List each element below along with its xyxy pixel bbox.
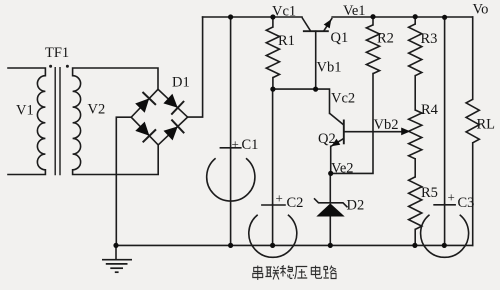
wire R1 top lead: [272, 17, 274, 27]
wire C3 lower lead: [444, 204, 446, 245]
ground bar 1: [102, 259, 132, 261]
transistor Q2 base bar: [343, 120, 345, 145]
svg-text:Vc2: Vc2: [331, 91, 355, 107]
bridge diode bottom-right bar: [171, 120, 184, 134]
junction dot Ve2: [328, 171, 333, 176]
svg-text:C2: C2: [287, 195, 304, 211]
svg-text:Vo: Vo: [473, 2, 489, 18]
capacitor C2 circle: [249, 215, 297, 258]
transformer TF1 primary winding: [37, 76, 45, 170]
junction dot D2 bottom: [328, 243, 333, 248]
svg-text:Ve1: Ve1: [343, 3, 366, 19]
transformer TF1 secondary winding: [73, 76, 81, 170]
wire top rail right segment: [332, 16, 473, 18]
svg-text:R3: R3: [421, 31, 438, 47]
wire Q2 emitter to Ve2: [330, 146, 332, 173]
transistor Q1 emitter diagonal: [324, 18, 333, 31]
wire bottom rail: [116, 244, 473, 246]
wire secondary bottom lead to bridge: [73, 145, 159, 175]
transformer TF1 core lines: [55, 67, 60, 175]
wire top rail left segment: [203, 16, 302, 18]
svg-text:R1: R1: [278, 33, 295, 49]
caption char 路: [323, 266, 336, 279]
svg-text:TF1: TF1: [45, 45, 69, 61]
wire R2 top lead: [372, 16, 374, 25]
junction dot C1 bottom: [228, 243, 233, 248]
bridge rectifier D1 diamond: [131, 89, 187, 145]
transformer phase dot secondary: [66, 65, 69, 68]
junction dot Vc1: [270, 14, 275, 19]
wire Ve2 to D2: [329, 173, 331, 203]
bridge diode top-left triangle: [135, 98, 149, 112]
svg-text:D2: D2: [347, 198, 365, 214]
caption 串联稳压电路: [253, 266, 337, 281]
transistor Q1 collector diagonal: [302, 18, 311, 32]
resistor R5 zigzag: [409, 177, 422, 230]
svg-text:R4: R4: [421, 102, 439, 118]
wire R5 bottom lead: [414, 229, 416, 245]
bridge diode top-left bar: [143, 92, 156, 105]
wire Vc2 jog to Q2 collector: [316, 89, 330, 113]
R4 wiper arrowhead: [401, 128, 410, 136]
transistor Q1 emitter arrowhead: [324, 19, 332, 28]
junction dot C2 bottom: [270, 243, 275, 248]
zener diode D2 triangle: [316, 203, 344, 216]
junction dot R3 top: [413, 14, 418, 19]
wire R3 top lead: [414, 16, 416, 24]
svg-text:D1: D1: [172, 75, 190, 91]
zener diode D2 cathode bar with tails: [314, 198, 348, 207]
resistor RL zigzag: [466, 99, 479, 143]
svg-text:V2: V2: [88, 102, 106, 118]
svg-text:C1: C1: [242, 137, 259, 153]
wire ground stem: [115, 245, 117, 258]
svg-text:Ve2: Ve2: [331, 161, 354, 177]
junction dot C3 bottom: [442, 243, 447, 248]
svg-text:Q1: Q1: [331, 30, 349, 46]
wire C3 branch: [444, 17, 446, 204]
wire C1 branch: [230, 17, 232, 148]
junction dot C3 top: [442, 15, 447, 20]
transformer phase dot primary: [49, 65, 52, 68]
resistor R4 zigzag potentiometer: [409, 110, 422, 159]
junction dot ground: [113, 243, 118, 248]
svg-text:RL: RL: [477, 117, 496, 133]
svg-text:Vb1: Vb1: [317, 60, 342, 76]
capacitor C3 circle: [421, 215, 469, 258]
caption char 稳: [280, 266, 294, 279]
wire Q1 base vertical: [315, 31, 317, 89]
bridge diode bottom-right triangle: [164, 126, 178, 140]
wire bridge left vertex to ground: [116, 117, 131, 245]
transistor Q2 emitter diagonal: [331, 138, 344, 146]
transistor Q1 base bar: [303, 30, 329, 32]
junction dot Ve1: [370, 14, 375, 19]
svg-text:Q2: Q2: [318, 131, 336, 147]
ground bar 4: [115, 271, 119, 273]
wire primary top stub: [8, 68, 45, 76]
ground bar 3: [110, 267, 123, 269]
transistor Q2 emitter arrowhead: [331, 139, 340, 147]
capacitor C1 circle: [207, 158, 255, 201]
wire D2 anode to bottom rail: [329, 217, 331, 246]
svg-text:+: +: [276, 191, 283, 206]
svg-text:Vc1: Vc1: [272, 4, 296, 20]
wire C1 lower lead: [230, 148, 232, 246]
capacitor C2 plate: [261, 204, 286, 206]
caption char 联: [265, 266, 279, 280]
wire R4 to R5: [414, 159, 416, 177]
junction dot Vb1 node: [313, 87, 318, 92]
svg-text:R5: R5: [421, 185, 438, 201]
wire Q2 base to R4 wiper: [344, 131, 403, 133]
wire secondary top lead to bridge: [73, 68, 158, 89]
bridge diode bottom-left bar: [143, 129, 156, 142]
svg-text:R2: R2: [377, 31, 394, 47]
svg-text:+: +: [232, 137, 239, 152]
caption char 电: [311, 266, 321, 279]
wire C2 lower lead: [272, 205, 274, 246]
wire R1 bottom lead: [272, 78, 274, 90]
wire node Vb1 row to C2: [272, 89, 274, 204]
junction dot R5 bottom: [412, 243, 417, 248]
wire RL branch vertical top: [472, 17, 474, 99]
resistor R1 zigzag: [266, 27, 279, 78]
wire node row R1 to base: [273, 88, 316, 90]
wire primary bottom stub: [8, 170, 45, 175]
wire RL branch vertical bottom: [472, 143, 474, 246]
ground bar 2: [106, 263, 128, 265]
svg-text:C3: C3: [458, 195, 475, 211]
bridge diode bottom-left triangle: [135, 122, 149, 136]
svg-text:+: +: [448, 190, 455, 205]
junction dot R1 bottom: [270, 87, 275, 92]
resistor R3 zigzag: [409, 24, 422, 76]
wire bridge right vertex to top rail: [188, 17, 203, 117]
junction dot C1 top: [228, 14, 233, 19]
transistor Q2 collector diagonal: [330, 113, 344, 125]
caption char 压: [295, 267, 308, 280]
wire R3 to R4: [414, 76, 416, 110]
caption char 串: [253, 266, 263, 281]
capacitor C1 plate: [220, 147, 242, 149]
bridge diode top-right triangle: [163, 94, 177, 108]
resistor R2 zigzag: [366, 25, 379, 74]
wire R2 long lower lead to Ve2: [331, 74, 373, 174]
svg-text:V1: V1: [16, 103, 34, 119]
svg-text:Vb2: Vb2: [374, 117, 399, 133]
bridge diode top-right bar: [171, 101, 184, 115]
capacitor C3 plate: [433, 204, 456, 206]
